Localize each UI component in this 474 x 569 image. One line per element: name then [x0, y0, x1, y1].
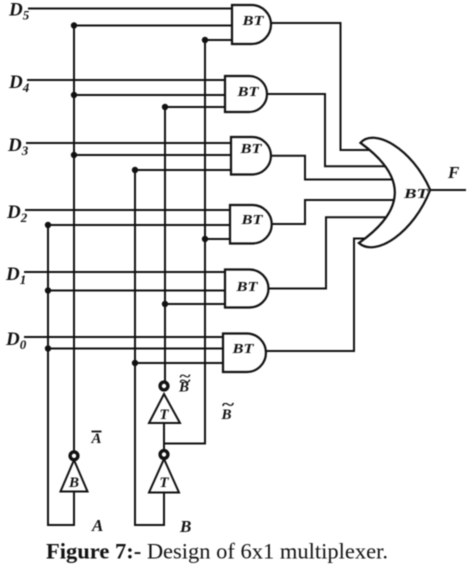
wire B input bottom [135, 493, 164, 526]
svg-text:BT: BT [235, 280, 259, 295]
svg-text:T: T [159, 475, 169, 491]
wire Btilde bottom tap [164, 443, 205, 445]
svg-text:BT: BT [231, 342, 255, 357]
label D0 [5, 329, 27, 352]
AND gate G2 (D4) [225, 76, 267, 112]
node Bdd-G5 [162, 301, 168, 307]
wire Abar vertical [73, 26, 75, 453]
label B [179, 517, 191, 536]
wire Bdoubletilde branch to G5 [165, 303, 238, 305]
wire Abar branch to G1 [74, 25, 245, 27]
svg-text:F: F [447, 163, 460, 182]
wire D0 line [25, 336, 236, 338]
AND gate G3 (D3) [231, 137, 271, 175]
label inverter U1 B [68, 475, 79, 491]
wire G2 output to OR [264, 94, 391, 166]
wire Abar branch to G2 [74, 94, 238, 96]
inverter U3 (B lower) [149, 451, 179, 493]
label Abar [91, 431, 102, 447]
label A [91, 516, 103, 535]
node B-G3 [132, 167, 138, 173]
label Bdoubletilde [178, 368, 191, 396]
label BT gate G1 [241, 14, 265, 29]
label D1 [5, 264, 26, 287]
node Abar-G1 [71, 22, 77, 28]
label inverter U2 T [159, 407, 169, 423]
wire Btilde vertical [204, 40, 206, 444]
svg-text:Figure 7:- Design of 6x1 multi: Figure 7:- Design of 6x1 multiplexer. [46, 539, 388, 564]
wire D4 line [28, 79, 238, 81]
wire B branch to G6 [135, 362, 236, 364]
label BT gate G2 [236, 85, 260, 100]
svg-text:~: ~ [180, 368, 192, 385]
label BT gate G7 [403, 187, 430, 202]
svg-text:B: B [179, 517, 191, 536]
svg-text:A: A [91, 431, 102, 447]
node Abar-G2 [71, 92, 77, 98]
AND gate G6 (D0) [223, 334, 266, 373]
node Bdd-G2 [162, 104, 168, 110]
label BT gate G6 [231, 342, 255, 357]
wire Btilde branch to G1 [205, 39, 245, 41]
label F [447, 163, 460, 182]
svg-text:~: ~ [222, 395, 234, 414]
node A-G4 [45, 222, 51, 228]
wire Abar branch to G3 [74, 154, 244, 156]
wire A branch to G6 [48, 348, 236, 350]
node A-G5 [45, 287, 51, 293]
label D3 [7, 135, 29, 158]
label BT gate G3 [239, 142, 263, 157]
AND gate G5 (D1) [225, 270, 268, 308]
wire B branch to G3 [135, 169, 244, 171]
svg-text:BT: BT [236, 85, 260, 100]
wire D5 line [29, 8, 245, 10]
node A-G6 [45, 345, 51, 351]
wire F output [430, 189, 465, 191]
label BT gate G5 [235, 280, 259, 295]
label D2 [6, 202, 28, 225]
wire G1 output to OR [268, 23, 372, 150]
wire Bdoubletilde branch to G2 [165, 106, 238, 108]
wire between inverters U2 U3 [163, 425, 165, 451]
svg-text:B: B [68, 475, 79, 491]
node Btilde-G1 [202, 37, 208, 43]
wire G6 output to OR [263, 239, 370, 352]
caption [46, 539, 388, 564]
inverter U1 (A) [61, 452, 88, 492]
label BT gate G4 [240, 213, 264, 228]
wire G4 output to OR [268, 200, 392, 224]
wire Btilde branch to G4 [205, 238, 243, 240]
wire D3 line [27, 142, 244, 144]
label D4 [8, 72, 30, 95]
wire D1 line [25, 271, 238, 273]
label D5 [8, 0, 30, 23]
wire A input bottom [48, 492, 74, 526]
inverter U2 (B upper) [149, 382, 180, 423]
wire A vertical [47, 225, 49, 525]
svg-text:A: A [91, 516, 103, 535]
wire G3 output to OR [268, 156, 392, 180]
AND gate G4 (D2) [230, 205, 272, 244]
wire A branch to G5 [48, 290, 238, 292]
wire Bdoubletilde vertical [164, 107, 166, 382]
node B-G6 [132, 360, 138, 366]
label Btilde [221, 395, 235, 423]
label inverter U3 T [159, 475, 169, 491]
node Btilde-G4 [202, 236, 208, 242]
node Abar-G3 [71, 152, 77, 158]
svg-text:BT: BT [239, 142, 263, 157]
wire D2 line [26, 209, 243, 211]
svg-text:BT: BT [403, 187, 430, 202]
svg-text:BT: BT [241, 14, 265, 29]
wire A branch to G4 [48, 224, 243, 226]
svg-text:BT: BT [240, 213, 264, 228]
wire G5 output to OR [265, 217, 385, 288]
OR gate G7 [359, 138, 430, 248]
svg-text:T: T [159, 407, 169, 423]
AND gate G1 (D5) [232, 5, 271, 44]
wire B vertical [134, 170, 136, 525]
